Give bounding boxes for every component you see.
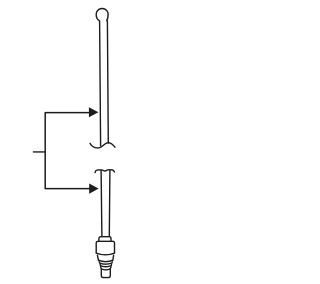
bracket mid tick	[33, 151, 45, 153]
connector stub top edge	[101, 269, 110, 270]
connector wide body bottom edge	[96, 253, 114, 255]
connector stub	[101, 267, 111, 278]
upper arrowhead	[89, 107, 99, 117]
connector taper band 1	[97, 255, 113, 260]
lower rod break squiggle	[95, 170, 114, 173]
connector taper band 3 bottom edge	[100, 266, 111, 267]
antenna tip ball	[96, 9, 108, 21]
connector taper band 1 bottom edge	[98, 260, 113, 261]
connector wide body	[96, 241, 114, 253]
lower arrowhead	[89, 184, 98, 194]
upper rod left edge	[100, 21, 101, 146]
connector taper band 2 bottom edge	[100, 263, 112, 264]
connector collar	[99, 237, 111, 242]
connector taper band 2	[99, 262, 112, 263]
upper rod right edge	[106, 21, 109, 143]
upper rod break squiggle	[90, 143, 115, 148]
callout bracket	[45, 113, 90, 189]
lower rod left edge	[100, 170, 103, 236]
lower rod right edge	[108, 170, 111, 237]
connector taper band 3	[100, 265, 111, 266]
